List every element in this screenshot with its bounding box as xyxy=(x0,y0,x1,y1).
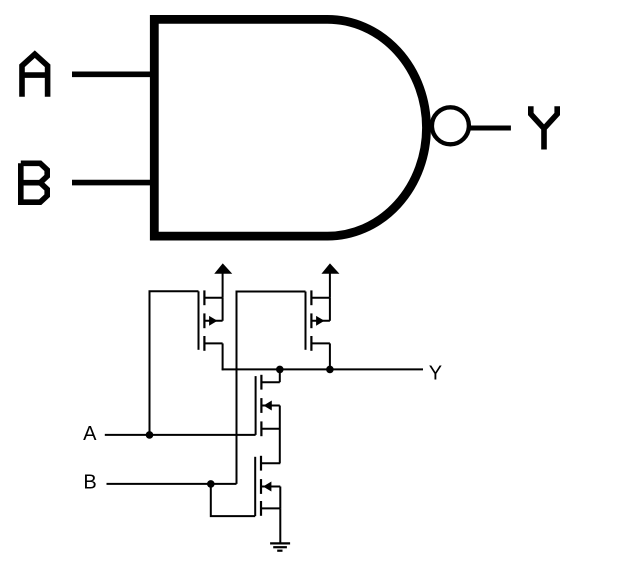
wire M2 source/bulk to VDD xyxy=(329,298,331,321)
wire B up and over to M2 gate xyxy=(237,292,306,484)
NAND gate inversion bubble xyxy=(432,107,469,144)
wire M4 bulk to source tie xyxy=(279,487,281,509)
junction node Y / M3 drain xyxy=(276,366,284,374)
wire input B horizontal xyxy=(107,483,237,485)
wire M1 source/bulk to VDD xyxy=(222,298,224,321)
NMOS transistor M3 (gate from A) xyxy=(256,375,280,436)
wire NAND output to Y xyxy=(471,126,511,131)
output net label Y (gate symbol, stroke font) xyxy=(531,106,557,149)
wire A junction up and over to M1 gate xyxy=(150,291,199,435)
NAND gate body xyxy=(154,19,426,236)
wire input A to NAND gate xyxy=(72,72,152,78)
input net label A (gate symbol, stroke font) xyxy=(22,54,48,97)
wire node Y horizontal xyxy=(222,368,423,370)
junction node Y / M2 drain xyxy=(326,366,334,374)
junction on B wire xyxy=(207,480,215,488)
input net label B (gate symbol, stroke font) xyxy=(21,163,47,202)
svg-text:Y: Y xyxy=(429,362,442,384)
NMOS transistor M4 (gate from B) xyxy=(255,456,280,516)
junction on A wire xyxy=(146,431,154,439)
PMOS transistor M1 (gate from A) xyxy=(199,290,223,350)
VDD supply arrow (right) xyxy=(323,264,339,298)
wire input A horizontal xyxy=(105,434,256,436)
wire M3 bulk/source tie and down to M4 drain xyxy=(279,406,281,464)
wire M2 drain down to node Y xyxy=(329,343,331,369)
svg-text:B: B xyxy=(83,471,96,493)
ground symbol xyxy=(270,543,290,550)
wire input B to NAND gate xyxy=(72,180,152,186)
wire M1 drain down to node Y xyxy=(222,343,224,370)
VDD supply arrow (left) xyxy=(215,264,231,298)
wire node Y down to M3 drain xyxy=(279,369,281,382)
PMOS transistor M2 (gate from B) xyxy=(306,290,330,350)
wire M4 source down to ground xyxy=(279,508,281,543)
wire B junction down and over to M4 gate xyxy=(211,484,255,516)
svg-text:A: A xyxy=(83,423,97,445)
